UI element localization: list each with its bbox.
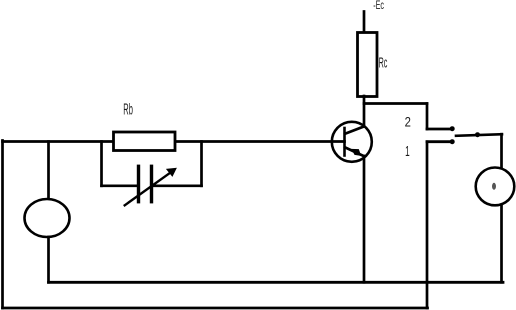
- svg-text:Rb: Rb: [123, 102, 133, 119]
- node contact 2: [450, 126, 455, 131]
- node lever junction: [475, 132, 480, 137]
- wire contact 1 lead: [427, 140, 450, 143]
- resistor Rc: [358, 33, 378, 97]
- svg-text:1: 1: [405, 143, 410, 160]
- wire left border: [1, 141, 4, 309]
- wire Rb-loop left vertical: [100, 142, 103, 186]
- wire Rb-loop right vertical: [200, 142, 203, 186]
- wire loop bottom right segment: [153, 184, 202, 187]
- wire top-left rail to Rb: [3, 140, 114, 143]
- wire outer bottom rail: [3, 307, 428, 310]
- wire switch drop: [426, 104, 429, 130]
- switch lever S: [456, 134, 502, 136]
- node contact 1: [450, 139, 455, 144]
- wire source top lead: [47, 142, 50, 200]
- transistor Q1 base bar: [343, 128, 346, 156]
- meter inner mark: [492, 183, 496, 190]
- wire source bottom lead: [47, 237, 50, 282]
- wire supply drop from -Ec: [363, 12, 366, 33]
- resistor Rb: [114, 132, 176, 151]
- wire contact-1 drop to outer bottom rail: [426, 142, 429, 308]
- wire emitter drop: [363, 156, 366, 282]
- transistor Q1 collector slant: [345, 126, 364, 134]
- wire meter bottom lead: [500, 205, 503, 282]
- wire collector vertical: [363, 96, 366, 127]
- source G1 (signal source circle): [25, 199, 70, 237]
- svg-text:Rc: Rc: [379, 54, 388, 71]
- meter P1 (circle): [476, 168, 515, 206]
- capacitor C1 (variable): [139, 166, 152, 201]
- transistor Q1 emitter slant: [345, 147, 364, 156]
- wire loop bottom left segment: [102, 184, 138, 187]
- wire meter top lead: [500, 134, 503, 168]
- arrow of variable capacitor: [125, 168, 177, 206]
- wire branch to switch: [364, 102, 427, 105]
- wire Rb right to transistor base: [176, 140, 345, 143]
- wire contact 2 lead: [427, 128, 450, 131]
- transistor Q1 circle: [332, 122, 372, 162]
- svg-text:-Ec: -Ec: [373, 0, 384, 12]
- svg-text:2: 2: [405, 114, 411, 130]
- transistor Q1 emitter arrowhead: [351, 149, 361, 156]
- wire inner bottom rail: [49, 281, 504, 284]
